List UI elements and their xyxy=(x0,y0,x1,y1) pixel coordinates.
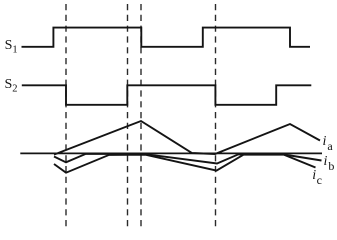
dashed timing line t1 xyxy=(65,4,67,230)
signal S1 trace xyxy=(22,28,311,47)
dashed timing line t3 xyxy=(140,4,142,230)
current i_c trace xyxy=(54,155,316,173)
label S2 xyxy=(5,77,18,95)
label i_b xyxy=(324,154,335,174)
current i_a trace xyxy=(54,121,320,155)
time axis xyxy=(20,152,322,154)
signal S2 trace xyxy=(22,85,312,105)
label i_a xyxy=(323,134,333,154)
dashed timing line t4 xyxy=(215,4,217,230)
label i_c xyxy=(312,168,322,188)
label S1 xyxy=(5,38,18,56)
current i_b trace xyxy=(54,154,322,164)
dashed timing line t2 xyxy=(127,4,129,230)
